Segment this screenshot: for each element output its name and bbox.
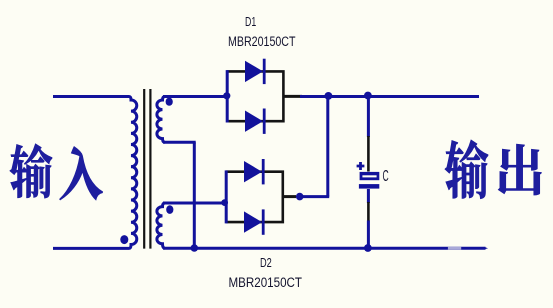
svg-text:C: C [383, 168, 389, 185]
transformer core line left [143, 89, 145, 249]
junction dot bottom rail / capacitor [364, 244, 372, 252]
wire: bottom-left input wire [53, 247, 129, 250]
transformer T primary winding [129, 97, 137, 249]
junction dot top rail / capacitor branch [364, 92, 372, 100]
text 输入 (input) [10, 144, 52, 198]
capacitor C bottom pin (black) [367, 202, 370, 222]
wire: top rail D1 to right end [300, 95, 479, 98]
svg-text:MBR20150CT: MBR20150CT [228, 34, 296, 49]
phase dot secondary top [166, 98, 173, 106]
wire: center tap vertical down to bottom rail [193, 142, 196, 248]
capacitor C top plate (hollow) [360, 172, 380, 180]
diode dual package D2 body (black box) [226, 172, 283, 222]
wire: bottom rail [163, 247, 486, 250]
diode dual package D1 body (black box) [227, 71, 283, 121]
junction dot D1 left node [223, 92, 230, 99]
wire: top rail from secondary to D1 [163, 95, 227, 98]
svg-text:MBR20150CT: MBR20150CT [229, 275, 303, 290]
faded watermark segment on bottom rail [448, 247, 461, 250]
transformer T secondary bottom winding [157, 203, 165, 248]
text 输出 (output) [445, 140, 488, 199]
junction dot top rail / D2 riser [325, 92, 333, 100]
wire: D2 output to riser [300, 195, 330, 198]
wire: cap branch blue upper [367, 96, 370, 137]
capacitor C plus sign [357, 162, 365, 170]
wire: secondary bottom to D2 left node [163, 202, 226, 205]
D2 lower diode [244, 211, 262, 232]
wire: cap branch blue lower to bottom rail [367, 221, 370, 249]
D2 output stub (black pin) [283, 195, 296, 198]
wire: D2 output riser up to top rail [326, 95, 329, 197]
phase dot secondary bottom [166, 205, 173, 214]
junction dot D2 left node [221, 199, 228, 206]
transformer T secondary top winding [157, 97, 165, 143]
D1 lower diode [245, 111, 263, 132]
svg-text:D1: D1 [245, 15, 256, 29]
transformer core line right [149, 89, 151, 249]
D1 left edge wire (blue) [226, 70, 229, 122]
svg-text:D2: D2 [260, 256, 272, 270]
D1 upper diode [245, 61, 263, 82]
D2 left edge wire (blue) [225, 170, 228, 223]
junction dot D2 output [296, 193, 304, 201]
capacitor C top pin (black) [367, 136, 370, 172]
wire: center tap horizontal [163, 141, 196, 144]
capacitor C bottom plate [359, 184, 379, 189]
D2 upper diode [244, 161, 262, 182]
phase dot primary bottom [120, 235, 128, 244]
junction dot center tap / bottom rail [191, 244, 199, 252]
D1 output stub (black pin) [283, 95, 302, 98]
wire: top-left input wire [53, 95, 129, 98]
wire: cap blue short below plate [367, 189, 370, 203]
